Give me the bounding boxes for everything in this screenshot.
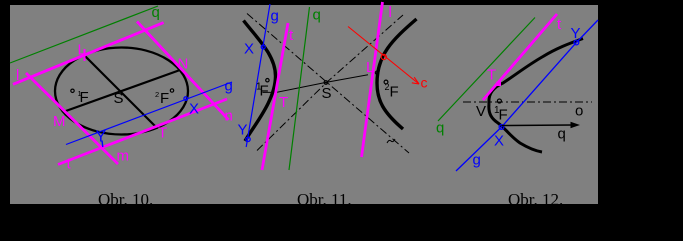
svg-text:F: F	[390, 84, 399, 101]
svg-text:Obr. 10.: Obr. 10.	[98, 190, 153, 209]
svg-text:q: q	[313, 7, 321, 24]
svg-text:T: T	[279, 94, 288, 111]
svg-text:L: L	[78, 42, 86, 59]
svg-text:l: l	[16, 67, 19, 84]
svg-text:T: T	[487, 67, 496, 84]
svg-text:o: o	[575, 103, 583, 120]
svg-text:Y: Y	[238, 122, 248, 139]
svg-text:g: g	[271, 8, 279, 25]
svg-text:n: n	[225, 108, 233, 125]
svg-text:S: S	[114, 90, 124, 107]
svg-text:F: F	[499, 107, 508, 124]
svg-text:N: N	[178, 56, 189, 73]
svg-text:Y: Y	[96, 129, 107, 146]
svg-text:Y: Y	[571, 25, 581, 42]
svg-text:M: M	[53, 113, 66, 130]
svg-text:q: q	[436, 120, 444, 137]
svg-text:g: g	[473, 152, 481, 169]
svg-text:g: g	[225, 78, 233, 95]
svg-text:X: X	[244, 41, 254, 58]
svg-text:S: S	[322, 85, 332, 102]
svg-text:2: 2	[155, 90, 159, 99]
svg-text:c: c	[421, 75, 428, 91]
svg-text:q: q	[152, 4, 160, 21]
svg-text:F: F	[80, 89, 89, 106]
svg-text:L: L	[366, 59, 374, 76]
svg-text:q: q	[558, 126, 566, 143]
svg-text:X: X	[189, 101, 199, 118]
svg-text:F: F	[160, 90, 169, 107]
svg-text:V: V	[476, 103, 486, 120]
svg-text:Obr. 12.: Obr. 12.	[508, 190, 563, 209]
svg-text:m: m	[117, 148, 130, 165]
svg-text:Obr. 11.: Obr. 11.	[297, 190, 352, 209]
svg-text:F: F	[260, 83, 269, 100]
svg-text:l: l	[389, 4, 392, 21]
svg-text:T: T	[158, 125, 167, 142]
svg-text:X: X	[494, 133, 504, 150]
